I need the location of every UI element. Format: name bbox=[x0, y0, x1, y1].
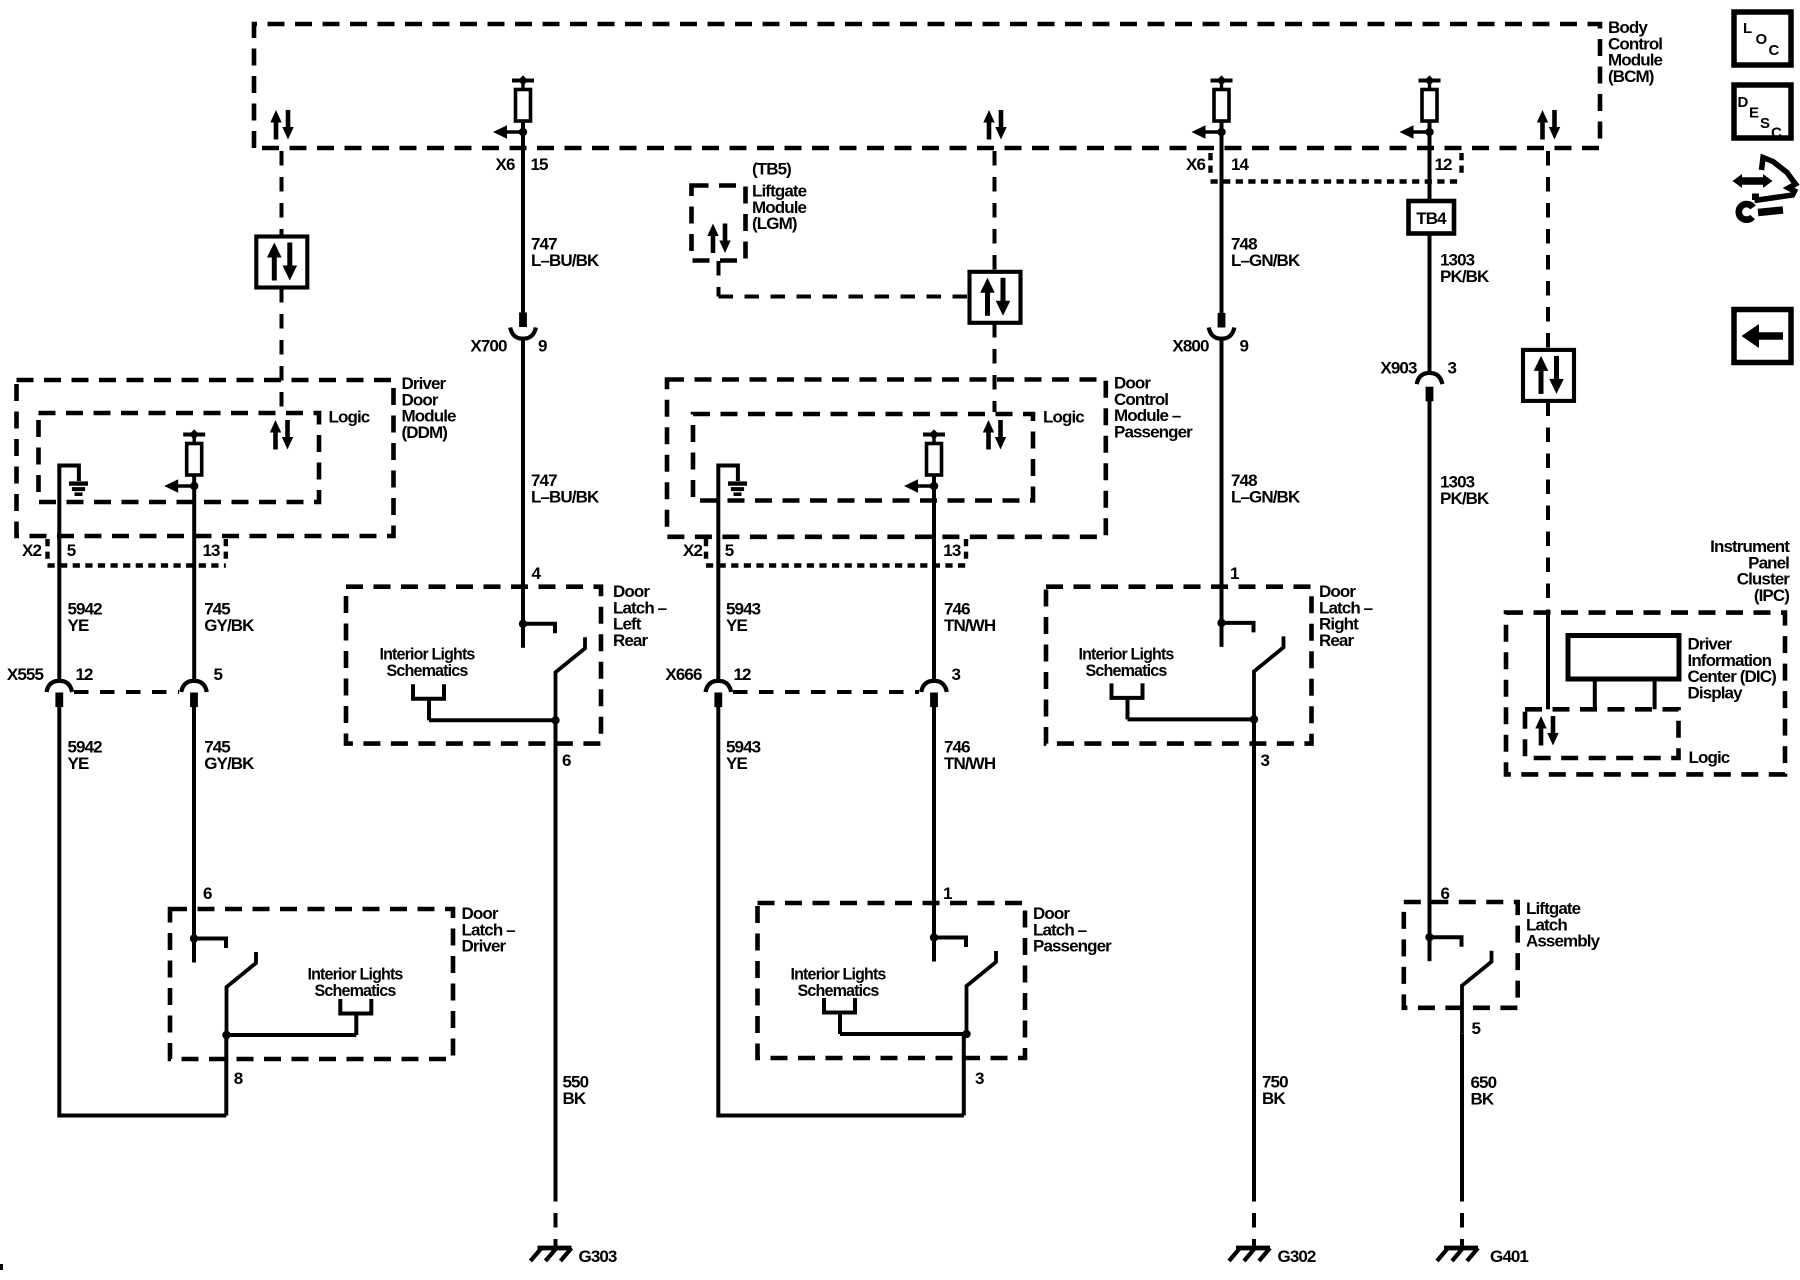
ground wire inside DCM bbox=[718, 466, 738, 681]
driver output with fuse inside DCM bbox=[904, 429, 945, 492]
svg-text:6: 6 bbox=[562, 751, 571, 770]
logic box inside DDM bbox=[39, 413, 320, 502]
boxed arrows (left) bbox=[256, 237, 307, 288]
svg-text:X2: X2 bbox=[683, 541, 702, 560]
svg-text:YE: YE bbox=[68, 754, 89, 773]
svg-text:5: 5 bbox=[214, 665, 223, 684]
module box: Door Latch - Passenger bbox=[758, 903, 1026, 1058]
svg-text:L–BU/BK: L–BU/BK bbox=[531, 488, 600, 507]
module box: Driver Door Module (DDM) bbox=[17, 380, 394, 536]
svg-text:G303: G303 bbox=[579, 1247, 617, 1266]
dashed wire arrow box to DCM logic bbox=[993, 323, 997, 412]
svg-text:3: 3 bbox=[1448, 359, 1457, 378]
svg-text:5: 5 bbox=[1472, 1019, 1481, 1038]
wire 1303 from BCM pin 12 bbox=[1428, 121, 1432, 202]
svg-text:C: C bbox=[1771, 125, 1782, 142]
svg-text:Rear: Rear bbox=[1319, 631, 1354, 650]
wire 750 BK from latch pin 3 bbox=[1252, 719, 1256, 1187]
off-page bracket to interior lights bbox=[340, 999, 371, 1035]
wire 5942 below X555 bbox=[59, 706, 226, 1116]
dashed wire BCM logic to arrow box (right) bbox=[1546, 151, 1550, 349]
svg-text:PK/BK: PK/BK bbox=[1440, 267, 1490, 286]
svg-text:O: O bbox=[1756, 31, 1768, 48]
wire 1303 below TB4 bbox=[1428, 234, 1432, 373]
dashed wire to G303 bbox=[554, 1187, 558, 1246]
ground G303 bbox=[531, 1248, 572, 1261]
svg-text:X555: X555 bbox=[7, 665, 44, 684]
logic arrows inside BCM (left) bbox=[270, 110, 293, 140]
svg-text:X2: X2 bbox=[22, 541, 41, 560]
svg-text:8: 8 bbox=[234, 1069, 243, 1088]
dashed wire LGM to arrow box (middle) bbox=[719, 295, 969, 299]
svg-text:Schematics: Schematics bbox=[798, 981, 879, 1000]
svg-text:13: 13 bbox=[943, 541, 961, 560]
junction dot switch output bbox=[962, 1030, 970, 1038]
connector X666 pin 12 female cap bbox=[706, 681, 732, 692]
wire 745 below X555 bbox=[192, 706, 196, 939]
svg-text:Driver: Driver bbox=[462, 937, 507, 956]
svg-text:TN/WH: TN/WH bbox=[944, 616, 996, 635]
svg-text:L–GN/BK: L–GN/BK bbox=[1231, 488, 1301, 507]
connector X6 dotted outline bottom bbox=[1211, 179, 1462, 183]
connector X666 pin 3 female cap bbox=[921, 681, 947, 692]
connector X2 dotted outline bottom bbox=[48, 563, 226, 567]
wire latch pin 8 down bbox=[224, 1035, 228, 1116]
dashed wire BCM logic to arrow box (middle) bbox=[993, 151, 997, 272]
latch switch (passenger) bbox=[930, 933, 996, 1034]
wire 748 from BCM X6-14 bbox=[1220, 121, 1224, 314]
svg-text:X903: X903 bbox=[1380, 359, 1417, 378]
connector X555 pin 5 male pin bbox=[190, 693, 198, 708]
module ground (DDM) bbox=[69, 484, 88, 495]
svg-text:D: D bbox=[1738, 94, 1749, 111]
svg-text:1: 1 bbox=[943, 884, 952, 903]
svg-text:Schematics: Schematics bbox=[1086, 661, 1167, 680]
svg-text:1: 1 bbox=[1230, 564, 1239, 583]
connector X800 male pin bbox=[1218, 313, 1226, 328]
svg-text:GY/BK: GY/BK bbox=[204, 754, 255, 773]
dashed wire LGM down bbox=[717, 261, 721, 297]
svg-text:13: 13 bbox=[203, 541, 221, 560]
svg-text:C: C bbox=[1769, 42, 1780, 59]
svg-text:12: 12 bbox=[1435, 155, 1453, 174]
junction dot switch output bbox=[222, 1031, 230, 1039]
icon: LOC box bbox=[1734, 12, 1791, 65]
svg-text:4: 4 bbox=[532, 564, 542, 583]
svg-text:14: 14 bbox=[1231, 155, 1250, 174]
junction dot switch output bbox=[1250, 715, 1258, 723]
module box: Liftgate Module (LGM) bbox=[692, 186, 746, 261]
connector X555 pin 12 female cap bbox=[47, 681, 73, 692]
dashed wire to G401 bbox=[1460, 1187, 1464, 1246]
svg-text:Passenger: Passenger bbox=[1114, 422, 1193, 441]
logic arrows inside IPC bbox=[1535, 716, 1558, 746]
svg-text:Schematics: Schematics bbox=[315, 981, 396, 1000]
svg-text:GY/BK: GY/BK bbox=[204, 616, 255, 635]
svg-text:X700: X700 bbox=[470, 337, 507, 356]
logic arrows inside LGM bbox=[707, 224, 730, 254]
off-page bracket to interior lights bbox=[824, 998, 855, 1034]
DIC leg right bbox=[1653, 679, 1657, 709]
svg-text:Assembly: Assembly bbox=[1526, 932, 1601, 951]
svg-text:X800: X800 bbox=[1172, 337, 1209, 356]
wire 748 below X800 bbox=[1220, 338, 1224, 623]
svg-text:BK: BK bbox=[1471, 1090, 1495, 1109]
latch switch (right rear) bbox=[1217, 619, 1283, 720]
logic box inside IPC bbox=[1525, 709, 1679, 758]
svg-text:3: 3 bbox=[952, 665, 961, 684]
dashed wire arrow box to IPC bbox=[1546, 402, 1550, 612]
wire 5943 below X666 bbox=[718, 706, 964, 1116]
connector X555 pin 5 female cap bbox=[181, 681, 207, 692]
svg-text:G401: G401 bbox=[1490, 1247, 1528, 1266]
svg-text:12: 12 bbox=[734, 665, 752, 684]
logic arrows inside DCM bbox=[983, 420, 1006, 450]
svg-text:YE: YE bbox=[68, 616, 89, 635]
icon: DESC box bbox=[1734, 85, 1791, 142]
svg-text:PK/BK: PK/BK bbox=[1440, 489, 1490, 508]
connector X700 male pin bbox=[519, 312, 527, 327]
svg-text:E: E bbox=[1749, 105, 1759, 122]
connector X2 dotted outline left stub bbox=[704, 539, 708, 559]
connector X555 dashed link bbox=[74, 690, 179, 694]
connector X800 female cup bbox=[1209, 328, 1235, 339]
svg-text:S: S bbox=[1760, 115, 1770, 132]
svg-text:(BCM): (BCM) bbox=[1608, 67, 1654, 86]
connector X555 pin 12 male pin bbox=[55, 693, 63, 708]
driver output with fuse, BCM pin 12 bbox=[1400, 75, 1441, 138]
connector X666 pin 3 male pin bbox=[930, 693, 938, 708]
connector X666 dashed link bbox=[733, 690, 919, 694]
svg-text:3: 3 bbox=[1261, 751, 1270, 770]
svg-text:BK: BK bbox=[563, 1089, 587, 1108]
logic arrows inside BCM (middle) bbox=[983, 110, 1006, 140]
wire 650 BK from latch pin 5 bbox=[1460, 1034, 1464, 1187]
wire bracket to switch junction bbox=[227, 1033, 357, 1037]
connector X2 dotted outline left stub bbox=[45, 539, 49, 559]
module box: Body Control Module (BCM) bbox=[254, 24, 1600, 148]
wire 1303 below X903 bbox=[1428, 400, 1432, 937]
module box: Door Latch - Driver bbox=[170, 909, 453, 1059]
svg-text:X6: X6 bbox=[1186, 155, 1205, 174]
svg-text:TN/WH: TN/WH bbox=[944, 754, 996, 773]
svg-text:6: 6 bbox=[203, 884, 212, 903]
wire bracket to switch junction bbox=[1128, 717, 1255, 721]
svg-text:9: 9 bbox=[1240, 337, 1249, 356]
svg-text:Rear: Rear bbox=[613, 631, 648, 650]
module box: Door Latch - Right Rear bbox=[1046, 587, 1312, 744]
svg-text:X666: X666 bbox=[665, 665, 702, 684]
svg-text:(DDM): (DDM) bbox=[402, 423, 448, 442]
dashed wire arrow box to DDM logic bbox=[280, 288, 284, 412]
dashed wire BCM logic to arrow box bbox=[280, 151, 284, 236]
svg-text:Logic: Logic bbox=[329, 408, 370, 427]
svg-text:L–BU/BK: L–BU/BK bbox=[531, 251, 600, 270]
wire 747 below X700 bbox=[521, 338, 525, 624]
svg-text:Logic: Logic bbox=[1689, 748, 1730, 767]
svg-text:9: 9 bbox=[538, 337, 547, 356]
driver output with fuse inside DDM bbox=[164, 429, 205, 492]
svg-text:L–GN/BK: L–GN/BK bbox=[1231, 251, 1301, 270]
ground wire inside DDM bbox=[59, 466, 79, 681]
svg-text:(TB5): (TB5) bbox=[752, 160, 791, 179]
splice TB4 bbox=[1409, 201, 1455, 234]
svg-text:G302: G302 bbox=[1278, 1247, 1316, 1266]
connector X903 female cap bbox=[1417, 373, 1443, 384]
svg-text:Schematics: Schematics bbox=[387, 661, 468, 680]
wire 746 below X666 bbox=[932, 706, 936, 938]
connector X2 dotted outline right stub bbox=[224, 539, 228, 559]
latch switch (left rear) bbox=[519, 620, 585, 721]
svg-text:12: 12 bbox=[76, 665, 94, 684]
svg-text:Logic: Logic bbox=[1043, 408, 1084, 427]
off-page bracket to interior lights bbox=[413, 684, 444, 720]
wire latch pin 3 down bbox=[962, 1034, 966, 1116]
connector X666 pin 12 male pin bbox=[714, 693, 722, 708]
connector X6 dotted outline left stub bbox=[1208, 153, 1212, 175]
driver output with fuse, BCM pin X6-14 bbox=[1192, 75, 1233, 138]
ground G401 bbox=[1437, 1248, 1478, 1261]
wire bracket to switch junction bbox=[429, 718, 556, 722]
svg-text:Passenger: Passenger bbox=[1033, 937, 1112, 956]
wire 747 from BCM X6-15 bbox=[521, 121, 525, 314]
svg-text:5: 5 bbox=[67, 541, 76, 560]
module box: Door Control Module - Passenger bbox=[667, 380, 1106, 537]
logic arrows inside BCM (right) bbox=[1537, 110, 1560, 140]
wire 745 from DDM fuse bbox=[192, 475, 196, 681]
icon: swap/wrench bbox=[1733, 158, 1796, 220]
module ground (DCM) bbox=[728, 484, 747, 495]
svg-text:TB4: TB4 bbox=[1416, 209, 1447, 228]
DIC leg left bbox=[1593, 679, 1597, 709]
junction dot switch output bbox=[551, 716, 559, 724]
connector X2 dotted outline right stub bbox=[964, 539, 968, 559]
connector X2 dotted outline bottom bbox=[706, 563, 966, 567]
svg-text:BK: BK bbox=[1262, 1089, 1286, 1108]
module box: Door Latch - Left Rear bbox=[346, 587, 601, 744]
boxed arrows (middle) bbox=[970, 272, 1021, 323]
svg-text:5: 5 bbox=[725, 541, 734, 560]
svg-text:YE: YE bbox=[726, 754, 747, 773]
wire bracket to switch junction bbox=[840, 1032, 967, 1036]
dashed wire to G302 bbox=[1252, 1187, 1256, 1246]
boxed arrows (right) bbox=[1523, 350, 1574, 401]
svg-text:(LGM): (LGM) bbox=[752, 214, 797, 233]
wire 746 from DCM fuse bbox=[932, 475, 936, 681]
logic arrows inside DDM bbox=[270, 420, 293, 450]
driver output with fuse, BCM pin X6-15 bbox=[493, 75, 534, 138]
svg-text:15: 15 bbox=[531, 155, 549, 174]
module box: Liftgate Latch Assembly bbox=[1404, 902, 1518, 1008]
svg-text:X6: X6 bbox=[496, 155, 515, 174]
svg-text:YE: YE bbox=[726, 616, 747, 635]
latch switch (driver) bbox=[190, 934, 256, 1035]
wire 550 BK from latch pin 6 bbox=[554, 720, 558, 1187]
ground G302 bbox=[1229, 1248, 1270, 1261]
latch switch (liftgate) bbox=[1425, 933, 1491, 1034]
icon: back arrow box bbox=[1734, 310, 1791, 363]
svg-text:Display: Display bbox=[1688, 683, 1744, 702]
module box: Instrument Panel Cluster (IPC) bbox=[1506, 613, 1785, 775]
off-page bracket to interior lights bbox=[1112, 683, 1143, 719]
connector X700 female cup bbox=[510, 328, 536, 339]
logic box inside DCM bbox=[693, 414, 1033, 501]
connector X903 male pin bbox=[1426, 387, 1434, 402]
wire into IPC bbox=[1546, 613, 1550, 710]
svg-text:(IPC): (IPC) bbox=[1754, 586, 1789, 605]
connector X6 dotted outline right stub bbox=[1459, 153, 1463, 175]
display: Driver Information Center (DIC) bbox=[1568, 636, 1679, 680]
svg-text:L: L bbox=[1743, 20, 1752, 37]
svg-text:3: 3 bbox=[975, 1069, 984, 1088]
artifact dot bottom-left bbox=[0, 1264, 3, 1270]
